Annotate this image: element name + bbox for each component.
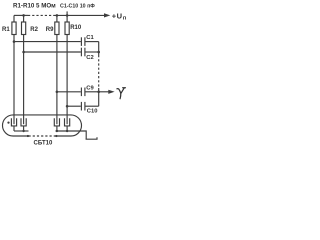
svg-text:С1-С10 10 пФ: С1-С10 10 пФ (60, 3, 95, 9)
cathode cup electrode section 2 (21, 118, 26, 126)
arrowhead Y output (108, 90, 114, 94)
svg-text:C9: C9 (86, 86, 94, 92)
label: Y output (oscilloscope channel) (117, 88, 126, 99)
wire: cup 2 stub to cathode bus (23, 126, 25, 131)
node: R10/C10 junction (66, 105, 69, 108)
node: right rail Y output junction (97, 91, 100, 94)
wire: cup 9 stub to cathode bus (56, 126, 58, 131)
svg-text:R1-R10 5 МОм: R1-R10 5 МОм (13, 3, 56, 10)
wire: top rail solid right part to arrow (54, 14, 105, 16)
wire: R9 anode lead into tube (56, 92, 58, 124)
cathode cup electrode section 9 (54, 118, 59, 126)
wire: +U supply top rail solid left part (14, 14, 28, 16)
resistor R2 (23, 15, 25, 22)
wire: R10 anode lead into tube (66, 106, 68, 124)
node: rail junction R9 (56, 14, 59, 17)
wire: cup 10 stub to cathode bus (66, 126, 68, 131)
svg-text:+Uп: +Uп (112, 11, 127, 21)
cathode cup electrode section 1 (11, 118, 16, 126)
capacitor C2 (24, 51, 81, 53)
ground (86, 137, 97, 139)
envelope bottom break: white cover (29, 135, 56, 138)
arrowhead +U supply (104, 13, 110, 17)
svg-text:C10: C10 (87, 109, 98, 115)
svg-text:СБТ10: СБТ10 (34, 140, 53, 146)
node: R2/C2 junction (22, 51, 25, 54)
node: rail junction R10 (66, 14, 69, 17)
capacitor C10 (67, 105, 81, 107)
node: break-line end dot left (27, 135, 29, 137)
svg-text:R10: R10 (70, 25, 82, 31)
node: rail junction R2 (22, 14, 25, 17)
gas-filled tube dot (7, 122, 9, 124)
wire: right cathode bus to envelope (56, 130, 81, 132)
node: break-line end dot right (55, 135, 57, 137)
node: right rail C2 junction (97, 51, 100, 54)
resistor R1 (13, 15, 15, 22)
cathode cup electrode section 10 (65, 118, 70, 126)
resistor R10 (66, 15, 68, 22)
wire: ground lead exiting tube (81, 131, 87, 139)
svg-text:R2: R2 (30, 27, 38, 33)
wire: arrow to Y output (99, 91, 109, 93)
node: R9/C9 junction (56, 91, 59, 94)
envelope bottom dashed continuation (29, 135, 56, 137)
svg-text:R9: R9 (46, 27, 54, 33)
wire: stub above rail at R10 junction (66, 11, 68, 15)
wire: right rail dashed continuation (98, 55, 100, 88)
tube СБТ10 envelope (3, 115, 82, 136)
wire: cup 1 stub to cathode bus (13, 126, 15, 131)
svg-text:R1: R1 (2, 27, 10, 33)
wire: R1 anode lead into tube (13, 42, 15, 125)
wire: left cathode bus (14, 130, 29, 132)
wire: top rail dashed continuation segment (28, 14, 54, 16)
wire: R2 anode lead into tube (23, 52, 25, 124)
wire: output bus right rail solid top (98, 42, 100, 55)
svg-text:C2: C2 (86, 55, 93, 61)
wire: right rail solid bottom (98, 88, 100, 106)
resistor R9 (56, 15, 58, 22)
node: R1/C1 junction (13, 40, 16, 43)
capacitor C9 (57, 91, 81, 93)
svg-text:C1: C1 (86, 35, 94, 41)
node: right bus cup9 junction (56, 130, 58, 132)
node: right bus cup10 junction (66, 130, 68, 132)
capacitor C1 (14, 41, 81, 43)
node: left bus cup2 junction (22, 130, 24, 132)
